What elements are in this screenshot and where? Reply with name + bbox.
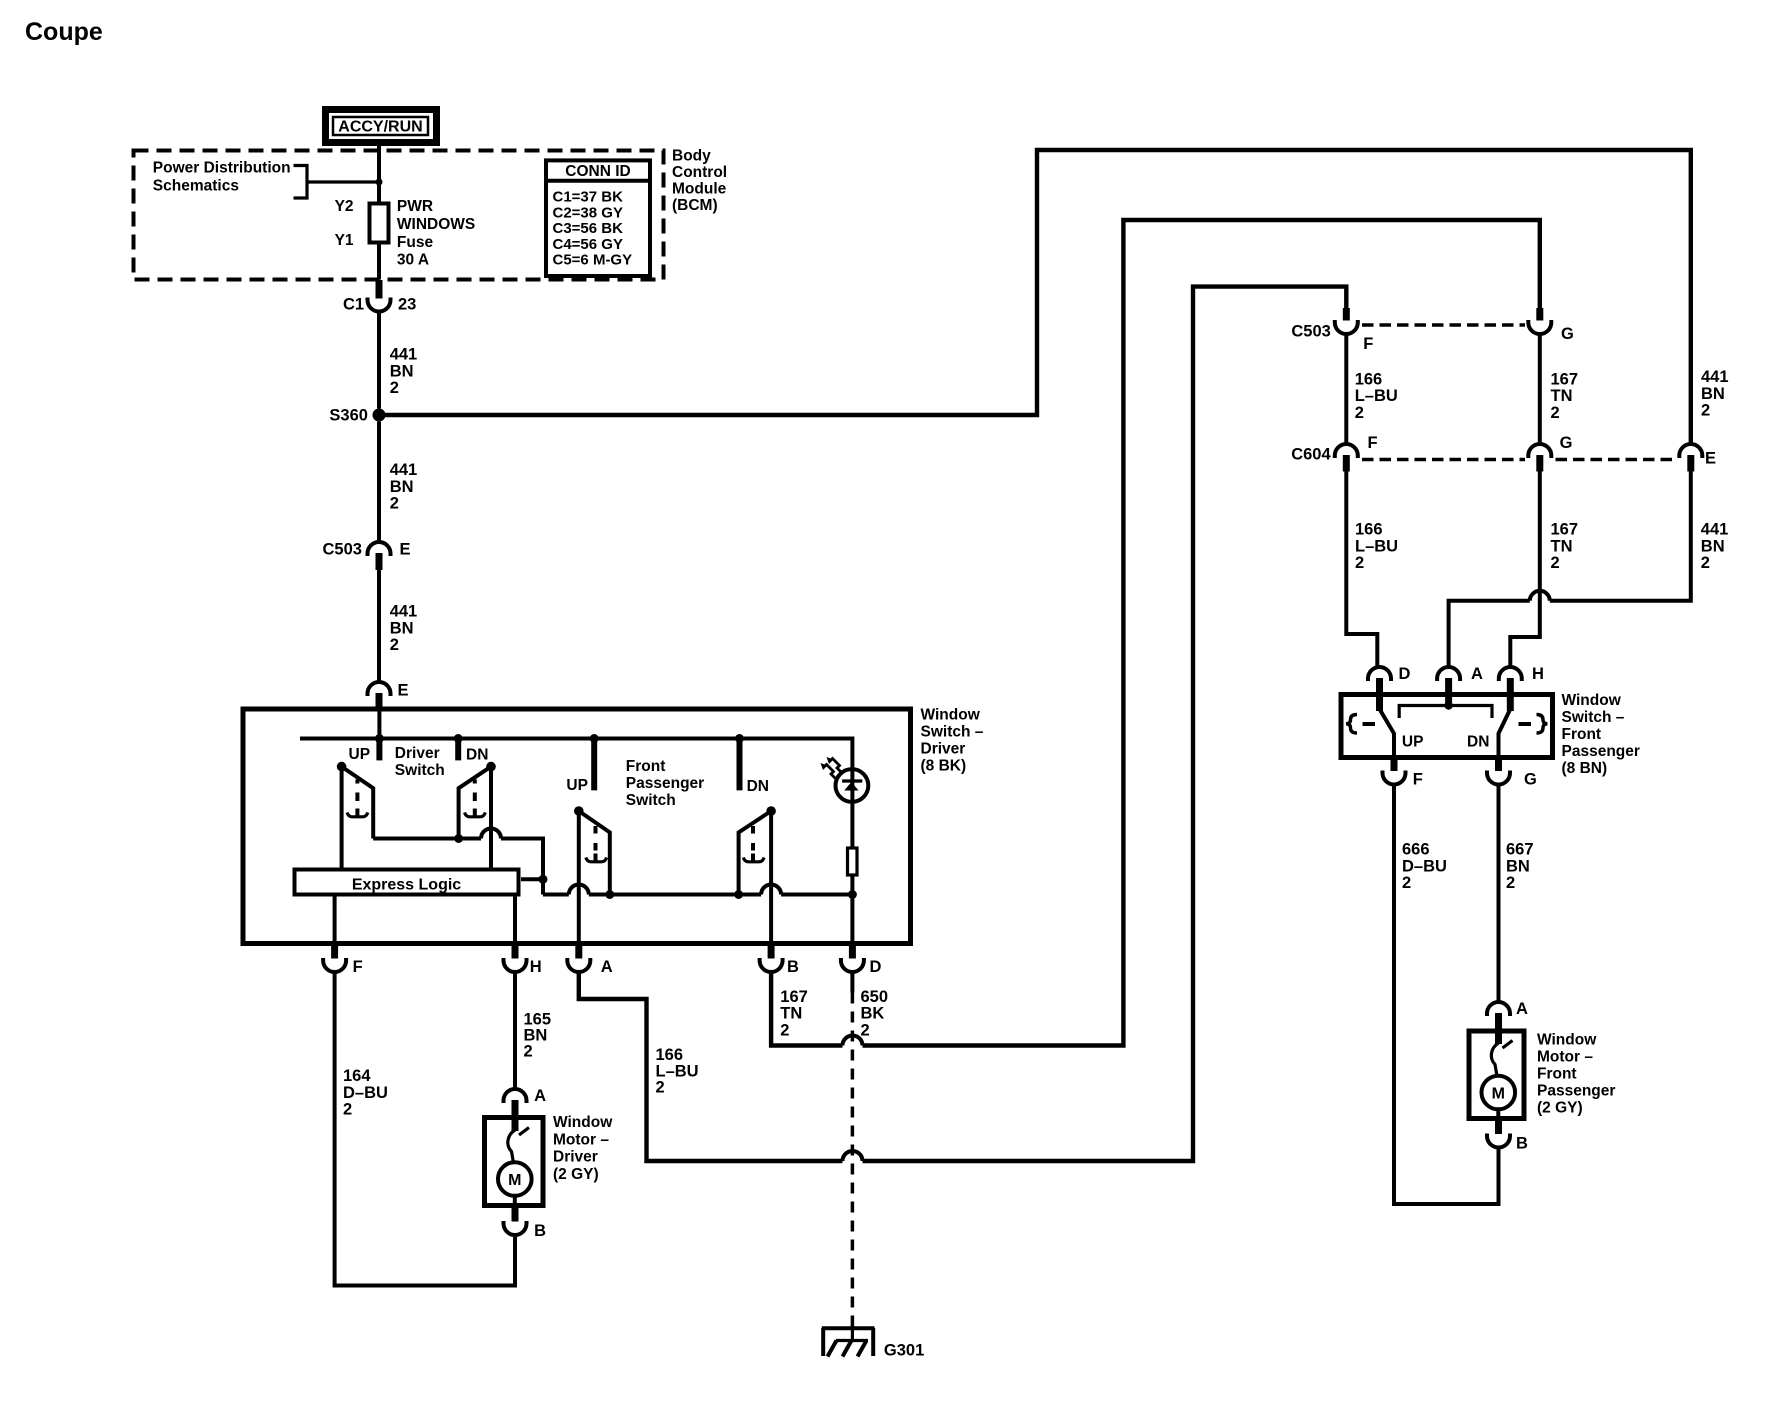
svg-text:164: 164: [343, 1067, 371, 1085]
motor M front passenger: [1482, 1076, 1516, 1110]
svg-text:B: B: [534, 1222, 546, 1240]
wire hop 441 over 167: [1530, 591, 1550, 601]
fuse PWR WINDOWS 30A: [335, 198, 476, 269]
node junction resistor to D output: [848, 890, 857, 899]
label 167 TN 2 (right upper): [1551, 370, 1579, 422]
label 166 L-BU 2 (left): [656, 1046, 699, 1097]
svg-text:H: H: [530, 958, 542, 976]
svg-text:(BCM): (BCM): [672, 197, 718, 214]
svg-text:A: A: [601, 958, 613, 976]
wire S360 long run to right side (441 BN): [379, 150, 1691, 444]
svg-text:(2 GY): (2 GY): [1537, 1099, 1583, 1116]
wire express logic to connector H: [513, 895, 517, 946]
svg-text:2: 2: [390, 379, 399, 397]
svg-text:UP: UP: [566, 777, 588, 794]
label 441 BN 2 (middle): [390, 461, 418, 513]
wire 441 C604 to FP switch A (with hop over 167): [1449, 472, 1691, 668]
wire 167 C503 to C604: [1538, 334, 1542, 444]
svg-text:L–BU: L–BU: [656, 1062, 699, 1080]
connector D (FP switch): [1368, 665, 1411, 711]
svg-text:UP: UP: [349, 746, 371, 763]
wire 441 BN C503 to window switch: [377, 570, 381, 682]
svg-text:F: F: [353, 958, 363, 976]
window switch driver box (8 BK): [243, 709, 911, 944]
connector F (FP switch): [1383, 757, 1423, 789]
wire E into rail: [377, 712, 381, 739]
svg-text:441: 441: [390, 461, 418, 479]
svg-text:G: G: [1524, 771, 1537, 789]
node rail junction at E input: [375, 734, 384, 743]
connector H (FP switch): [1499, 665, 1544, 711]
label 167 TN 2 (left): [780, 988, 808, 1040]
svg-text:Switch –: Switch –: [921, 724, 984, 741]
svg-text:Fuse: Fuse: [397, 234, 434, 251]
node rail junction at FP DN contact: [735, 734, 744, 743]
label 167 TN 2 (right lower): [1551, 521, 1579, 573]
node junction FP DN contact on feed wire: [734, 890, 743, 899]
svg-text:Switch: Switch: [395, 762, 445, 779]
svg-text:H: H: [1532, 665, 1544, 683]
wire hop over FP UP pole: [569, 885, 589, 895]
svg-text:DN: DN: [466, 747, 488, 764]
switch FP UP actuator dashes and detent: [586, 826, 607, 862]
svg-text:Window: Window: [1537, 1031, 1597, 1048]
svg-text:G: G: [1561, 325, 1574, 343]
svg-text:Driver: Driver: [553, 1149, 598, 1166]
svg-text:BN: BN: [1506, 857, 1530, 875]
switch driver UP pole and blade: [337, 762, 373, 870]
svg-text:CONN ID: CONN ID: [565, 163, 630, 180]
svg-text:Power Distribution: Power Distribution: [153, 160, 291, 177]
svg-text:C503: C503: [323, 541, 362, 559]
switch FP DN fixed contact stub: [737, 740, 743, 790]
wire 166 L-BU from A to right side run (with hop over 650 wire): [579, 287, 1347, 1161]
svg-text:Switch: Switch: [626, 792, 676, 809]
switch FP DN pole and blade: [739, 806, 776, 946]
switch FP UP blade (right box): [1380, 709, 1395, 757]
svg-text:BN: BN: [1701, 385, 1725, 403]
wire 164 D-BU from F to motor loop: [335, 972, 515, 1286]
switch driver UP actuator dashes and detent: [347, 780, 368, 818]
svg-text:UP: UP: [1402, 734, 1424, 751]
switch driver DN fixed contact stub: [455, 740, 461, 760]
label 166 L-BU 2 (right upper): [1355, 370, 1398, 422]
left actuator arrow and dashes: [1346, 715, 1375, 734]
connector C503 cavity E (left): [323, 541, 411, 571]
svg-text:2: 2: [524, 1042, 533, 1060]
dashed connector line C604 F to G: [1362, 458, 1525, 462]
svg-text:Coupe: Coupe: [25, 18, 103, 46]
svg-text:E: E: [398, 682, 409, 700]
svg-text:D–BU: D–BU: [1402, 857, 1447, 875]
LED indicator: [836, 769, 869, 802]
motor M driver: [498, 1162, 532, 1196]
wire feed rail inside driver switch box: [300, 739, 852, 770]
svg-text:23: 23: [398, 296, 416, 314]
svg-text:F: F: [1368, 434, 1378, 452]
svg-text:E: E: [1705, 450, 1716, 468]
svg-text:C503: C503: [1291, 322, 1330, 340]
ground G301: [822, 1326, 924, 1360]
svg-text:167: 167: [780, 988, 808, 1006]
svg-text:A: A: [1471, 665, 1483, 683]
label Window Switch - Driver (8 BK): [921, 707, 984, 775]
wire 167 C604 to FP switch H: [1510, 472, 1540, 668]
svg-text:2: 2: [1701, 402, 1710, 420]
connector C503 cavity G (right): [1528, 308, 1574, 343]
wire fuse to C1: [377, 245, 381, 280]
svg-text:A: A: [534, 1087, 546, 1105]
LED illumination arrows: [821, 757, 844, 780]
label 441 BN 2 (right lower): [1701, 521, 1729, 573]
connector C604 cavity F: [1335, 434, 1378, 472]
svg-text:Control: Control: [672, 164, 727, 181]
svg-text:650: 650: [861, 988, 889, 1006]
svg-text:2: 2: [1355, 554, 1364, 572]
svg-text:2: 2: [1701, 554, 1710, 572]
svg-text:2: 2: [1355, 404, 1364, 422]
svg-text:2: 2: [1551, 404, 1560, 422]
svg-text:Driver: Driver: [395, 745, 440, 762]
node junction driver DN contact on output wire: [454, 834, 463, 843]
svg-text:BN: BN: [390, 478, 414, 496]
svg-text:BN: BN: [390, 619, 414, 637]
svg-text:Y2: Y2: [335, 198, 354, 215]
svg-text:M: M: [1492, 1086, 1505, 1103]
svg-text:C2=38 GY: C2=38 GY: [553, 204, 623, 221]
svg-text:Front: Front: [626, 758, 666, 775]
express logic box: [295, 870, 519, 895]
svg-text:DN: DN: [1467, 734, 1489, 751]
node junction FP UP contact on feed wire: [605, 890, 614, 899]
connector D (driver switch): [841, 946, 882, 976]
svg-text:2: 2: [390, 636, 399, 654]
label 441 BN 2 (lower): [390, 603, 418, 655]
svg-text:30 A: 30 A: [397, 252, 429, 269]
svg-text:D–BU: D–BU: [343, 1084, 388, 1102]
svg-text:Passenger: Passenger: [1537, 1082, 1615, 1099]
connector A (FP switch): [1437, 665, 1483, 706]
svg-text:TN: TN: [780, 1005, 802, 1023]
svg-text:441: 441: [1701, 521, 1729, 539]
switch FP DN actuator dashes and detent: [743, 826, 764, 862]
wire 166 C604 to FP switch D: [1346, 472, 1377, 668]
dashed connector line C604 G to E: [1556, 458, 1677, 462]
svg-text:G301: G301: [884, 1342, 924, 1360]
wire passenger switch feed (with hops over poles): [543, 893, 852, 897]
wire hop over FP DN pole: [761, 885, 781, 895]
connector E at driver window switch: [368, 682, 409, 710]
svg-text:(2 GY): (2 GY): [553, 1166, 599, 1183]
driver motor internal breaker: [508, 1117, 529, 1163]
svg-text:G: G: [1560, 434, 1573, 452]
wire S360 down to C503: [377, 422, 381, 543]
window motor driver box (2 GY): [485, 1118, 544, 1206]
svg-text:C4=56 GY: C4=56 GY: [553, 236, 623, 253]
node junction at power distribution tap: [376, 179, 383, 186]
window motor front passenger box (2 GY): [1469, 1031, 1524, 1119]
svg-text:C3=56 BK: C3=56 BK: [553, 220, 624, 237]
svg-text:2: 2: [780, 1021, 789, 1039]
node rail junction at FP UP contact: [590, 734, 599, 743]
svg-text:166: 166: [1355, 370, 1383, 388]
svg-text:Y1: Y1: [335, 232, 354, 249]
wire resistor to node: [850, 875, 854, 895]
connector G (FP switch): [1487, 757, 1537, 789]
svg-text:D: D: [1399, 665, 1411, 683]
wire 650 BK dashed ground wire: [851, 993, 855, 1328]
label 441 BN 2 (upper): [390, 346, 418, 398]
connector B (driver motor): [504, 1206, 547, 1241]
svg-text:BN: BN: [390, 362, 414, 380]
wire 167 TN from B to right side run (with hop over 650 wire): [771, 220, 1540, 1046]
label Power Distribution Schematics: [153, 160, 291, 195]
svg-text:DN: DN: [747, 778, 769, 795]
label Window Motor - Driver (2 GY): [553, 1114, 613, 1183]
svg-text:BK: BK: [861, 1005, 885, 1023]
wire hop 166 over ground wire: [843, 1151, 863, 1161]
svg-text:2: 2: [1506, 874, 1515, 892]
svg-text:Body: Body: [672, 148, 711, 165]
FP switch common bracket from A: [1399, 701, 1492, 718]
svg-text:Front: Front: [1537, 1065, 1577, 1082]
switch FP UP pole and blade: [574, 806, 610, 946]
switch driver UP fixed contact stub: [376, 740, 382, 760]
splice S360: [329, 407, 385, 425]
wire ACCY/RUN to fuse: [377, 146, 381, 202]
svg-text:Passenger: Passenger: [626, 775, 704, 792]
wire hop over driver DN pole: [481, 829, 501, 839]
svg-text:2: 2: [1402, 874, 1411, 892]
svg-text:667: 667: [1506, 841, 1534, 859]
label Front Passenger Switch: [626, 758, 704, 809]
svg-text:2: 2: [343, 1101, 352, 1119]
switch driver DN pole and blade: [459, 762, 496, 870]
label 166 L-BU 2 (right lower): [1355, 521, 1398, 573]
connector C604 cavity E: [1679, 444, 1716, 472]
svg-text:2: 2: [390, 495, 399, 513]
svg-text:166: 166: [656, 1046, 684, 1064]
wire driver switch contacts to express logic node (with hop over DN pole): [373, 839, 543, 878]
wire LED to resistor: [850, 802, 854, 848]
svg-text:2: 2: [861, 1021, 870, 1039]
bracket from Power Distribution label: [294, 166, 308, 199]
connector A (driver switch): [567, 946, 613, 976]
node junction express logic output: [539, 875, 548, 884]
svg-text:Front: Front: [1562, 726, 1602, 743]
label 667 BN 2: [1506, 841, 1534, 893]
svg-text:Motor –: Motor –: [553, 1131, 609, 1148]
label 650 BK 2: [861, 988, 889, 1040]
right actuator arrow and dashes: [1519, 715, 1548, 734]
svg-text:D: D: [870, 958, 882, 976]
label 666 D-BU 2: [1402, 841, 1447, 893]
BCM dashed module box: [134, 151, 664, 280]
wire express logic to connector F: [333, 895, 337, 946]
wire node to connector D: [850, 895, 854, 947]
dashed connector line C503 F to G: [1362, 323, 1525, 327]
connector C503 cavity F (right): [1335, 308, 1374, 353]
wire node down to passenger feed wire: [541, 879, 545, 894]
label Driver Switch: [395, 745, 445, 779]
svg-text:Driver: Driver: [921, 741, 966, 758]
svg-text:Passenger: Passenger: [1562, 743, 1640, 760]
wire 650 BK from D (solid lead-in): [850, 972, 854, 993]
svg-text:WINDOWS: WINDOWS: [397, 216, 475, 233]
svg-text:Schematics: Schematics: [153, 178, 239, 195]
svg-text:2: 2: [656, 1079, 665, 1097]
svg-text:Module: Module: [672, 181, 727, 198]
svg-text:(8 BN): (8 BN): [1562, 760, 1608, 777]
wire 666 D-BU from F to motor loop: [1394, 785, 1499, 1205]
svg-text:Motor –: Motor –: [1537, 1048, 1593, 1065]
label Body Control Module (BCM): [672, 148, 727, 215]
svg-text:E: E: [400, 541, 411, 559]
connector B (FP motor): [1487, 1119, 1528, 1153]
svg-text:S360: S360: [329, 407, 368, 425]
svg-text:B: B: [1516, 1135, 1528, 1153]
connector C1 pin 23: [343, 280, 416, 314]
svg-text:F: F: [1363, 335, 1373, 353]
wire express logic stub to node: [521, 877, 543, 881]
wire motor to box bottom: [513, 1196, 517, 1206]
label Window Motor - Front Passenger (2 GY): [1537, 1031, 1615, 1116]
FP motor internal breaker: [1491, 1031, 1512, 1076]
switch FP UP fixed contact stub: [591, 740, 597, 790]
label Window Switch - Front Passenger (8 BN): [1562, 692, 1640, 777]
connector C604 cavity G: [1528, 434, 1572, 472]
label 164 D-BU 2: [343, 1067, 388, 1119]
svg-text:B: B: [787, 958, 799, 976]
svg-text:TN: TN: [1551, 387, 1573, 405]
connector A (FP motor): [1487, 1000, 1528, 1031]
svg-text:2: 2: [1551, 554, 1560, 572]
wire 166 C503 to C604: [1344, 334, 1348, 444]
switch driver DN actuator dashes and detent: [465, 780, 486, 818]
svg-text:F: F: [1413, 771, 1423, 789]
resistor: [848, 848, 858, 875]
switch FP DN blade (right box): [1499, 709, 1511, 757]
label 441 BN 2 (right upper): [1701, 368, 1729, 420]
CONN ID table: [546, 160, 650, 276]
connector B (driver switch): [760, 946, 799, 976]
svg-text:Window: Window: [553, 1114, 613, 1131]
svg-text:C1: C1: [343, 296, 364, 314]
svg-text:ACCY/RUN: ACCY/RUN: [338, 119, 422, 136]
svg-text:C1=37 BK: C1=37 BK: [553, 189, 624, 206]
svg-text:PWR: PWR: [397, 198, 433, 215]
connector A (driver motor): [504, 1087, 547, 1117]
svg-text:BN: BN: [1701, 537, 1725, 555]
svg-text:C604: C604: [1291, 445, 1331, 463]
power feed box ACCY/RUN: [326, 110, 437, 143]
wire bracket to main feed: [307, 180, 379, 183]
svg-text:167: 167: [1551, 370, 1579, 388]
svg-text:L–BU: L–BU: [1355, 537, 1398, 555]
connector F (driver switch): [323, 946, 363, 976]
svg-text:441: 441: [390, 346, 418, 364]
node rail junction at driver DN contact: [454, 734, 463, 743]
wire motor to box bottom: [1496, 1109, 1500, 1118]
svg-text:167: 167: [1551, 521, 1579, 539]
svg-text:441: 441: [1701, 368, 1729, 386]
wire 441 BN C1 to S360: [377, 312, 381, 409]
wire 667 BN from G to FP motor: [1497, 785, 1501, 1003]
svg-text:441: 441: [390, 603, 418, 621]
svg-text:666: 666: [1402, 841, 1430, 859]
connector H (driver switch): [504, 946, 542, 976]
svg-text:A: A: [1516, 1000, 1528, 1018]
wire 165 BN from H to driver motor: [513, 972, 517, 1089]
svg-text:Window: Window: [1562, 692, 1622, 709]
wire hop 167 over ground wire: [843, 1036, 863, 1046]
svg-text:C5=6 M-GY: C5=6 M-GY: [553, 252, 633, 269]
svg-text:TN: TN: [1551, 537, 1573, 555]
svg-text:L–BU: L–BU: [1355, 387, 1398, 405]
svg-text:Window: Window: [921, 707, 981, 724]
svg-text:Express Logic: Express Logic: [352, 877, 461, 894]
svg-text:M: M: [508, 1172, 521, 1189]
svg-text:Switch –: Switch –: [1562, 709, 1625, 726]
label 165 BN 2: [524, 1010, 552, 1060]
svg-text:(8 BK): (8 BK): [921, 758, 967, 775]
svg-text:166: 166: [1355, 521, 1383, 539]
window switch front passenger box (8 BN): [1341, 695, 1553, 758]
